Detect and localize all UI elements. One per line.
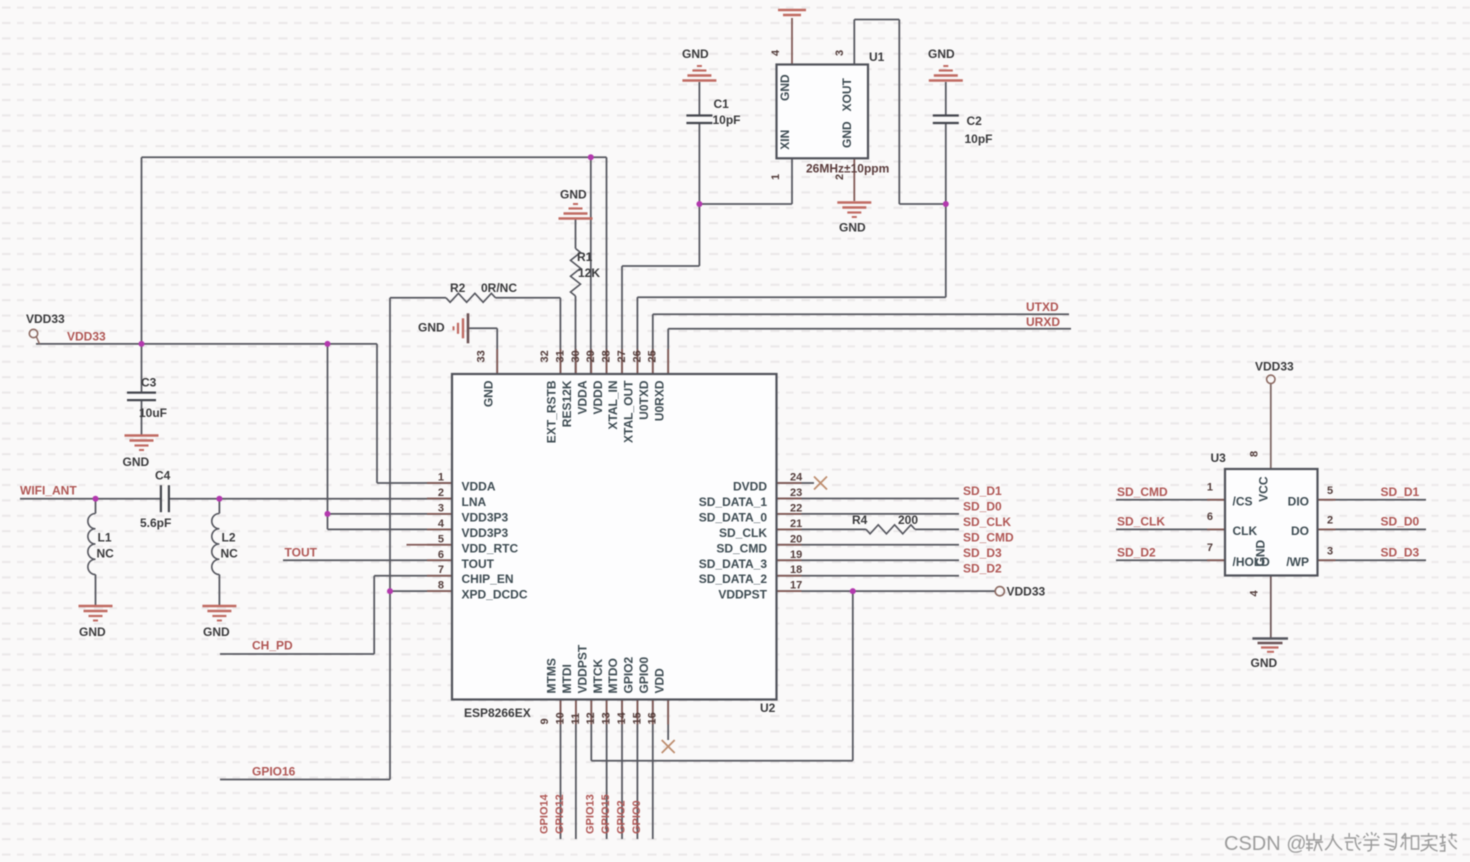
svg-text:VDDPST: VDDPST	[718, 588, 767, 602]
svg-text:23: 23	[790, 487, 802, 499]
wire R1 to RES12K	[575, 219, 577, 374]
svg-text:6: 6	[438, 549, 444, 561]
wire bottom GPIO stubs	[561, 700, 653, 840]
svg-text:GND: GND	[123, 455, 150, 469]
IC U2 ESP8266EX box	[452, 374, 777, 700]
svg-text:GPIO2: GPIO2	[615, 800, 627, 834]
svg-text:1: 1	[438, 472, 444, 484]
U1 pin numbers	[770, 49, 846, 180]
svg-text:C4: C4	[155, 469, 171, 483]
U3 pin stubs	[1207, 500, 1336, 561]
watermark CSDN	[1224, 832, 1457, 855]
net label UTXD	[1026, 300, 1059, 314]
svg-text:UTXD: UTXD	[1026, 300, 1059, 314]
svg-text:17: 17	[790, 580, 802, 592]
ground top of U1	[778, 10, 806, 15]
wire UTXD	[653, 314, 1069, 374]
svg-text:2: 2	[438, 487, 444, 499]
svg-text:SD_D2: SD_D2	[1117, 545, 1156, 559]
resistor R1 12K	[571, 249, 601, 297]
svg-text:XPD_DCDC: XPD_DCDC	[462, 588, 528, 602]
svg-text:5: 5	[1327, 485, 1333, 497]
svg-text:LNA: LNA	[462, 495, 487, 509]
svg-text:GND: GND	[1254, 540, 1268, 567]
svg-text:28: 28	[601, 350, 613, 362]
svg-text:SD_D3: SD_D3	[1381, 545, 1420, 559]
svg-text:4: 4	[770, 49, 782, 56]
U2 bottom pin names	[545, 644, 667, 693]
svg-text:SD_D0: SD_D0	[1381, 514, 1420, 528]
wire R2 to EXT_RSTB	[390, 298, 560, 374]
wire pin16 VDD stub	[667, 700, 669, 741]
svg-text:SD_DATA_1: SD_DATA_1	[699, 495, 768, 509]
svg-text:6: 6	[1207, 511, 1213, 523]
svg-text:GPIO0: GPIO0	[637, 656, 651, 693]
svg-text:EXT_RSTB: EXT_RSTB	[545, 380, 559, 443]
wire U3 GND	[1270, 576, 1272, 638]
wire WIFI_ANT	[20, 498, 452, 500]
svg-text:R2: R2	[450, 281, 466, 295]
capacitor C4	[140, 469, 171, 531]
svg-text:24: 24	[790, 472, 803, 484]
svg-text:VDD3P3: VDD3P3	[462, 510, 509, 524]
wire CH_PD	[220, 576, 452, 654]
wire TOUT	[283, 559, 452, 561]
U2 top pin names	[481, 380, 666, 443]
svg-text:VDDA: VDDA	[575, 380, 589, 414]
svg-text:GPIO15: GPIO15	[600, 794, 612, 834]
svg-text:33: 33	[476, 350, 488, 362]
svg-text:5: 5	[438, 533, 444, 545]
svg-text:26: 26	[631, 350, 643, 362]
svg-text:21: 21	[790, 518, 802, 530]
svg-text:GND: GND	[79, 625, 106, 639]
wire XTAL_IN net	[622, 82, 792, 374]
svg-text:XTAL_OUT: XTAL_OUT	[622, 380, 636, 443]
capacitor C2	[933, 114, 993, 146]
ground below L1	[79, 606, 113, 639]
svg-text:L2: L2	[222, 531, 236, 545]
svg-text:1: 1	[1207, 481, 1213, 493]
svg-text:10pF: 10pF	[965, 132, 993, 146]
svg-text:SD_D3: SD_D3	[963, 546, 1002, 560]
svg-text:SD_CLK: SD_CLK	[1117, 514, 1165, 528]
svg-text:25: 25	[647, 350, 659, 362]
svg-text:27: 27	[616, 350, 628, 362]
svg-text:13: 13	[601, 712, 613, 724]
svg-text:DVDD: DVDD	[733, 480, 767, 494]
svg-text:MTCK: MTCK	[591, 659, 605, 694]
svg-text:5.6pF: 5.6pF	[140, 516, 171, 530]
wire U3 VCC	[1270, 384, 1272, 469]
svg-text:GND: GND	[560, 188, 587, 202]
svg-text:ESP8266EX: ESP8266EX	[464, 706, 531, 720]
svg-text:SD_CLK: SD_CLK	[719, 526, 767, 540]
U2 reference labels	[464, 701, 776, 720]
U1 pin names	[778, 74, 854, 150]
svg-text:26MHz±10ppm: 26MHz±10ppm	[806, 162, 889, 176]
wire SD_CMD	[777, 544, 960, 546]
GPIO net labels bottom	[539, 793, 643, 834]
svg-text:R4: R4	[852, 513, 868, 527]
svg-text:U2: U2	[760, 701, 776, 715]
no-connect X DVDD	[814, 477, 827, 490]
net labels SD bus right of U2	[963, 484, 1014, 575]
svg-text:CSDN @: CSDN @	[1224, 833, 1307, 855]
svg-text:GPIO0: GPIO0	[631, 800, 643, 834]
svg-text:SD_D1: SD_D1	[1381, 485, 1420, 499]
svg-text:/CS: /CS	[1233, 494, 1253, 508]
net label CH_PD	[252, 639, 293, 653]
U2 pin stubs	[407, 349, 802, 725]
svg-text:VDD_RTC: VDD_RTC	[462, 541, 519, 555]
net label TOUT	[285, 546, 318, 560]
ground above C2	[928, 47, 963, 81]
flash U3 box	[1225, 469, 1318, 576]
svg-text:DO: DO	[1291, 524, 1309, 538]
resistor R4 200	[852, 513, 918, 534]
svg-text:SD_D0: SD_D0	[963, 500, 1002, 514]
svg-text:VDD33: VDD33	[1255, 360, 1294, 374]
svg-text:10: 10	[554, 712, 566, 724]
wire U1 pin2 to GND	[853, 158, 855, 201]
svg-text:SD_DATA_3: SD_DATA_3	[699, 557, 768, 571]
svg-text:SD_D1: SD_D1	[963, 484, 1002, 498]
U2 top pin numbers	[476, 350, 659, 362]
svg-text:VDDD: VDDD	[591, 380, 605, 414]
svg-text:SD_CLK: SD_CLK	[963, 515, 1011, 529]
ground below U3	[1251, 639, 1289, 671]
svg-text:SD_D2: SD_D2	[963, 561, 1002, 575]
svg-text:12K: 12K	[578, 266, 600, 280]
svg-text:GPIO12: GPIO12	[554, 794, 566, 834]
U3 labels	[1211, 451, 1227, 465]
ground above C1	[682, 47, 716, 81]
U2 left pin numbers	[438, 472, 445, 592]
svg-text:32: 32	[539, 350, 551, 362]
U3 pin names	[1233, 476, 1310, 569]
VDD33 net label left	[67, 330, 106, 344]
svg-text:7: 7	[1207, 542, 1213, 554]
inductor L1	[88, 499, 114, 605]
svg-text:16: 16	[647, 712, 659, 724]
U1 labels	[806, 50, 889, 176]
U3 pin numbers	[1207, 451, 1333, 597]
svg-text:SD_DATA_0: SD_DATA_0	[699, 510, 768, 524]
no-connect X VDD pin16	[662, 740, 675, 753]
net label WIFI_ANT	[20, 484, 77, 498]
ground below C3	[123, 436, 159, 470]
ground at U1 pin2	[837, 203, 871, 235]
wire VDDPST loop	[591, 591, 853, 761]
U2 left pin names	[462, 480, 528, 602]
VDD33 terminal top-left	[26, 312, 65, 344]
svg-text:GND: GND	[840, 121, 854, 148]
svg-text:C3: C3	[141, 376, 157, 390]
wire U1 pin4 to GND	[791, 18, 793, 65]
wire SD_DATA_3	[777, 559, 960, 561]
svg-text:GPIO14: GPIO14	[539, 793, 551, 834]
wire SD_DATA_1	[777, 497, 960, 499]
svg-text:GND: GND	[481, 380, 495, 407]
svg-text:2: 2	[1327, 514, 1333, 526]
svg-text:VDDA: VDDA	[462, 480, 496, 494]
capacitor C1	[686, 97, 740, 127]
crystal U1 box	[777, 65, 869, 159]
svg-text:4: 4	[1249, 590, 1261, 597]
wire URXD	[668, 329, 1071, 374]
svg-text:URXD: URXD	[1026, 315, 1060, 329]
svg-text:GPIO13: GPIO13	[585, 794, 597, 834]
svg-text:VDD3P3: VDD3P3	[462, 526, 509, 540]
svg-text:29: 29	[585, 350, 597, 362]
svg-text:GND: GND	[928, 47, 955, 61]
wire SD_CLK with R4	[777, 528, 960, 530]
svg-text:2: 2	[834, 174, 846, 180]
svg-text:0R/NC: 0R/NC	[481, 281, 517, 295]
wire U3 left	[1116, 500, 1225, 561]
U2 right pin names	[699, 480, 768, 602]
svg-text:CH_PD: CH_PD	[252, 639, 293, 653]
U3 net labels	[1117, 485, 1420, 560]
svg-text:GPIO16: GPIO16	[252, 765, 296, 779]
svg-text:GND: GND	[418, 321, 445, 335]
svg-text:18: 18	[790, 564, 802, 576]
svg-text:RES12K: RES12K	[560, 380, 574, 427]
svg-text:C1: C1	[714, 97, 730, 111]
svg-text:GND: GND	[778, 74, 792, 101]
ground below L2	[202, 606, 236, 639]
ground left of pin33	[418, 313, 468, 343]
svg-text:SD_CMD: SD_CMD	[963, 530, 1014, 544]
svg-text:WIFI_ANT: WIFI_ANT	[20, 484, 77, 498]
svg-text:4: 4	[438, 518, 445, 530]
ground above R1	[559, 188, 593, 219]
svg-text:30: 30	[570, 350, 582, 362]
svg-text:SD_CMD: SD_CMD	[1117, 485, 1168, 499]
wire VDD3P3 branch	[328, 344, 453, 529]
svg-text:NC: NC	[97, 547, 115, 561]
svg-text:U0RXD: U0RXD	[652, 380, 666, 421]
svg-text:VCC: VCC	[1257, 476, 1271, 502]
svg-text:VDD33: VDD33	[26, 312, 65, 326]
svg-text:MTDI: MTDI	[560, 664, 574, 693]
svg-text:10uF: 10uF	[139, 406, 167, 420]
resistor R2 0R/NC	[446, 281, 517, 302]
svg-text:20: 20	[790, 533, 802, 545]
svg-text:U1: U1	[869, 50, 885, 64]
wire DVDD stub	[777, 482, 815, 484]
svg-text:MTMS: MTMS	[545, 658, 559, 693]
svg-text:GND: GND	[1251, 656, 1278, 670]
wire C3 vertical	[141, 344, 143, 436]
svg-text:C2: C2	[967, 114, 983, 128]
svg-text:TOUT: TOUT	[462, 557, 495, 571]
svg-text:U0TXD: U0TXD	[637, 380, 651, 420]
inductor L2	[212, 499, 238, 605]
svg-text:GND: GND	[839, 221, 866, 235]
svg-text:VDD33: VDD33	[67, 330, 106, 344]
svg-text:19: 19	[790, 549, 802, 561]
U2 bottom pin numbers	[539, 711, 659, 724]
svg-text:22: 22	[790, 502, 802, 514]
wire GPIO16 / XPD_DCDC / R2 vertical	[220, 298, 452, 780]
svg-text:XTAL_IN: XTAL_IN	[606, 381, 620, 430]
VDD33 terminal above U3	[1255, 360, 1294, 384]
svg-text:14: 14	[616, 711, 628, 724]
svg-text:SD_CMD: SD_CMD	[716, 541, 767, 555]
svg-text:10pF: 10pF	[713, 113, 741, 127]
wire VDD33 top rail	[142, 157, 607, 374]
svg-text:31: 31	[554, 350, 566, 362]
wire VDDPST to VDD33	[777, 590, 996, 592]
svg-text:11: 11	[570, 713, 582, 725]
net label URXD	[1026, 315, 1060, 329]
capacitor C3	[127, 376, 167, 421]
net label GPIO16	[252, 765, 296, 779]
svg-text:3: 3	[1327, 545, 1333, 557]
svg-text:15: 15	[631, 712, 643, 724]
svg-text:7: 7	[438, 564, 444, 576]
svg-text:9: 9	[539, 718, 551, 724]
svg-text:VDD33: VDD33	[1007, 585, 1046, 599]
wire U3 right	[1318, 500, 1427, 561]
wire SD_DATA_0	[777, 513, 960, 515]
svg-text:SD_DATA_2: SD_DATA_2	[699, 572, 768, 586]
svg-text:CHIP_EN: CHIP_EN	[462, 572, 514, 586]
svg-text:MTDO: MTDO	[606, 658, 620, 693]
svg-text:CLK: CLK	[1233, 524, 1258, 538]
VDD33 terminal right of pin17	[995, 585, 1045, 599]
svg-text:12: 12	[585, 712, 597, 724]
svg-text:3: 3	[438, 502, 444, 514]
wire SD_DATA_2	[777, 575, 960, 577]
U2 right pin numbers	[790, 472, 803, 592]
svg-text:3: 3	[834, 50, 846, 56]
svg-text:GND: GND	[682, 47, 709, 61]
svg-text:TOUT: TOUT	[285, 546, 318, 560]
svg-text:8: 8	[438, 580, 444, 592]
svg-text:XOUT: XOUT	[840, 77, 854, 111]
wire XTAL_OUT net	[637, 20, 945, 375]
svg-text:XIN: XIN	[778, 130, 792, 150]
wire VDD33 horizontal	[36, 344, 452, 483]
svg-text:VDD: VDD	[652, 668, 666, 694]
svg-text:L1: L1	[98, 531, 112, 545]
svg-text:/WP: /WP	[1286, 555, 1309, 569]
svg-text:U3: U3	[1211, 451, 1227, 465]
svg-text:8: 8	[1249, 451, 1261, 457]
wire GND to pin33	[469, 328, 498, 374]
svg-text:GPIO2: GPIO2	[622, 656, 636, 693]
svg-text:200: 200	[898, 513, 918, 527]
svg-text:GND: GND	[203, 625, 230, 639]
svg-text:NC: NC	[221, 547, 239, 561]
svg-text:DIO: DIO	[1288, 494, 1309, 508]
svg-text:VDDPST: VDDPST	[575, 644, 589, 693]
svg-text:1: 1	[770, 174, 782, 180]
svg-text:R1: R1	[577, 250, 593, 264]
